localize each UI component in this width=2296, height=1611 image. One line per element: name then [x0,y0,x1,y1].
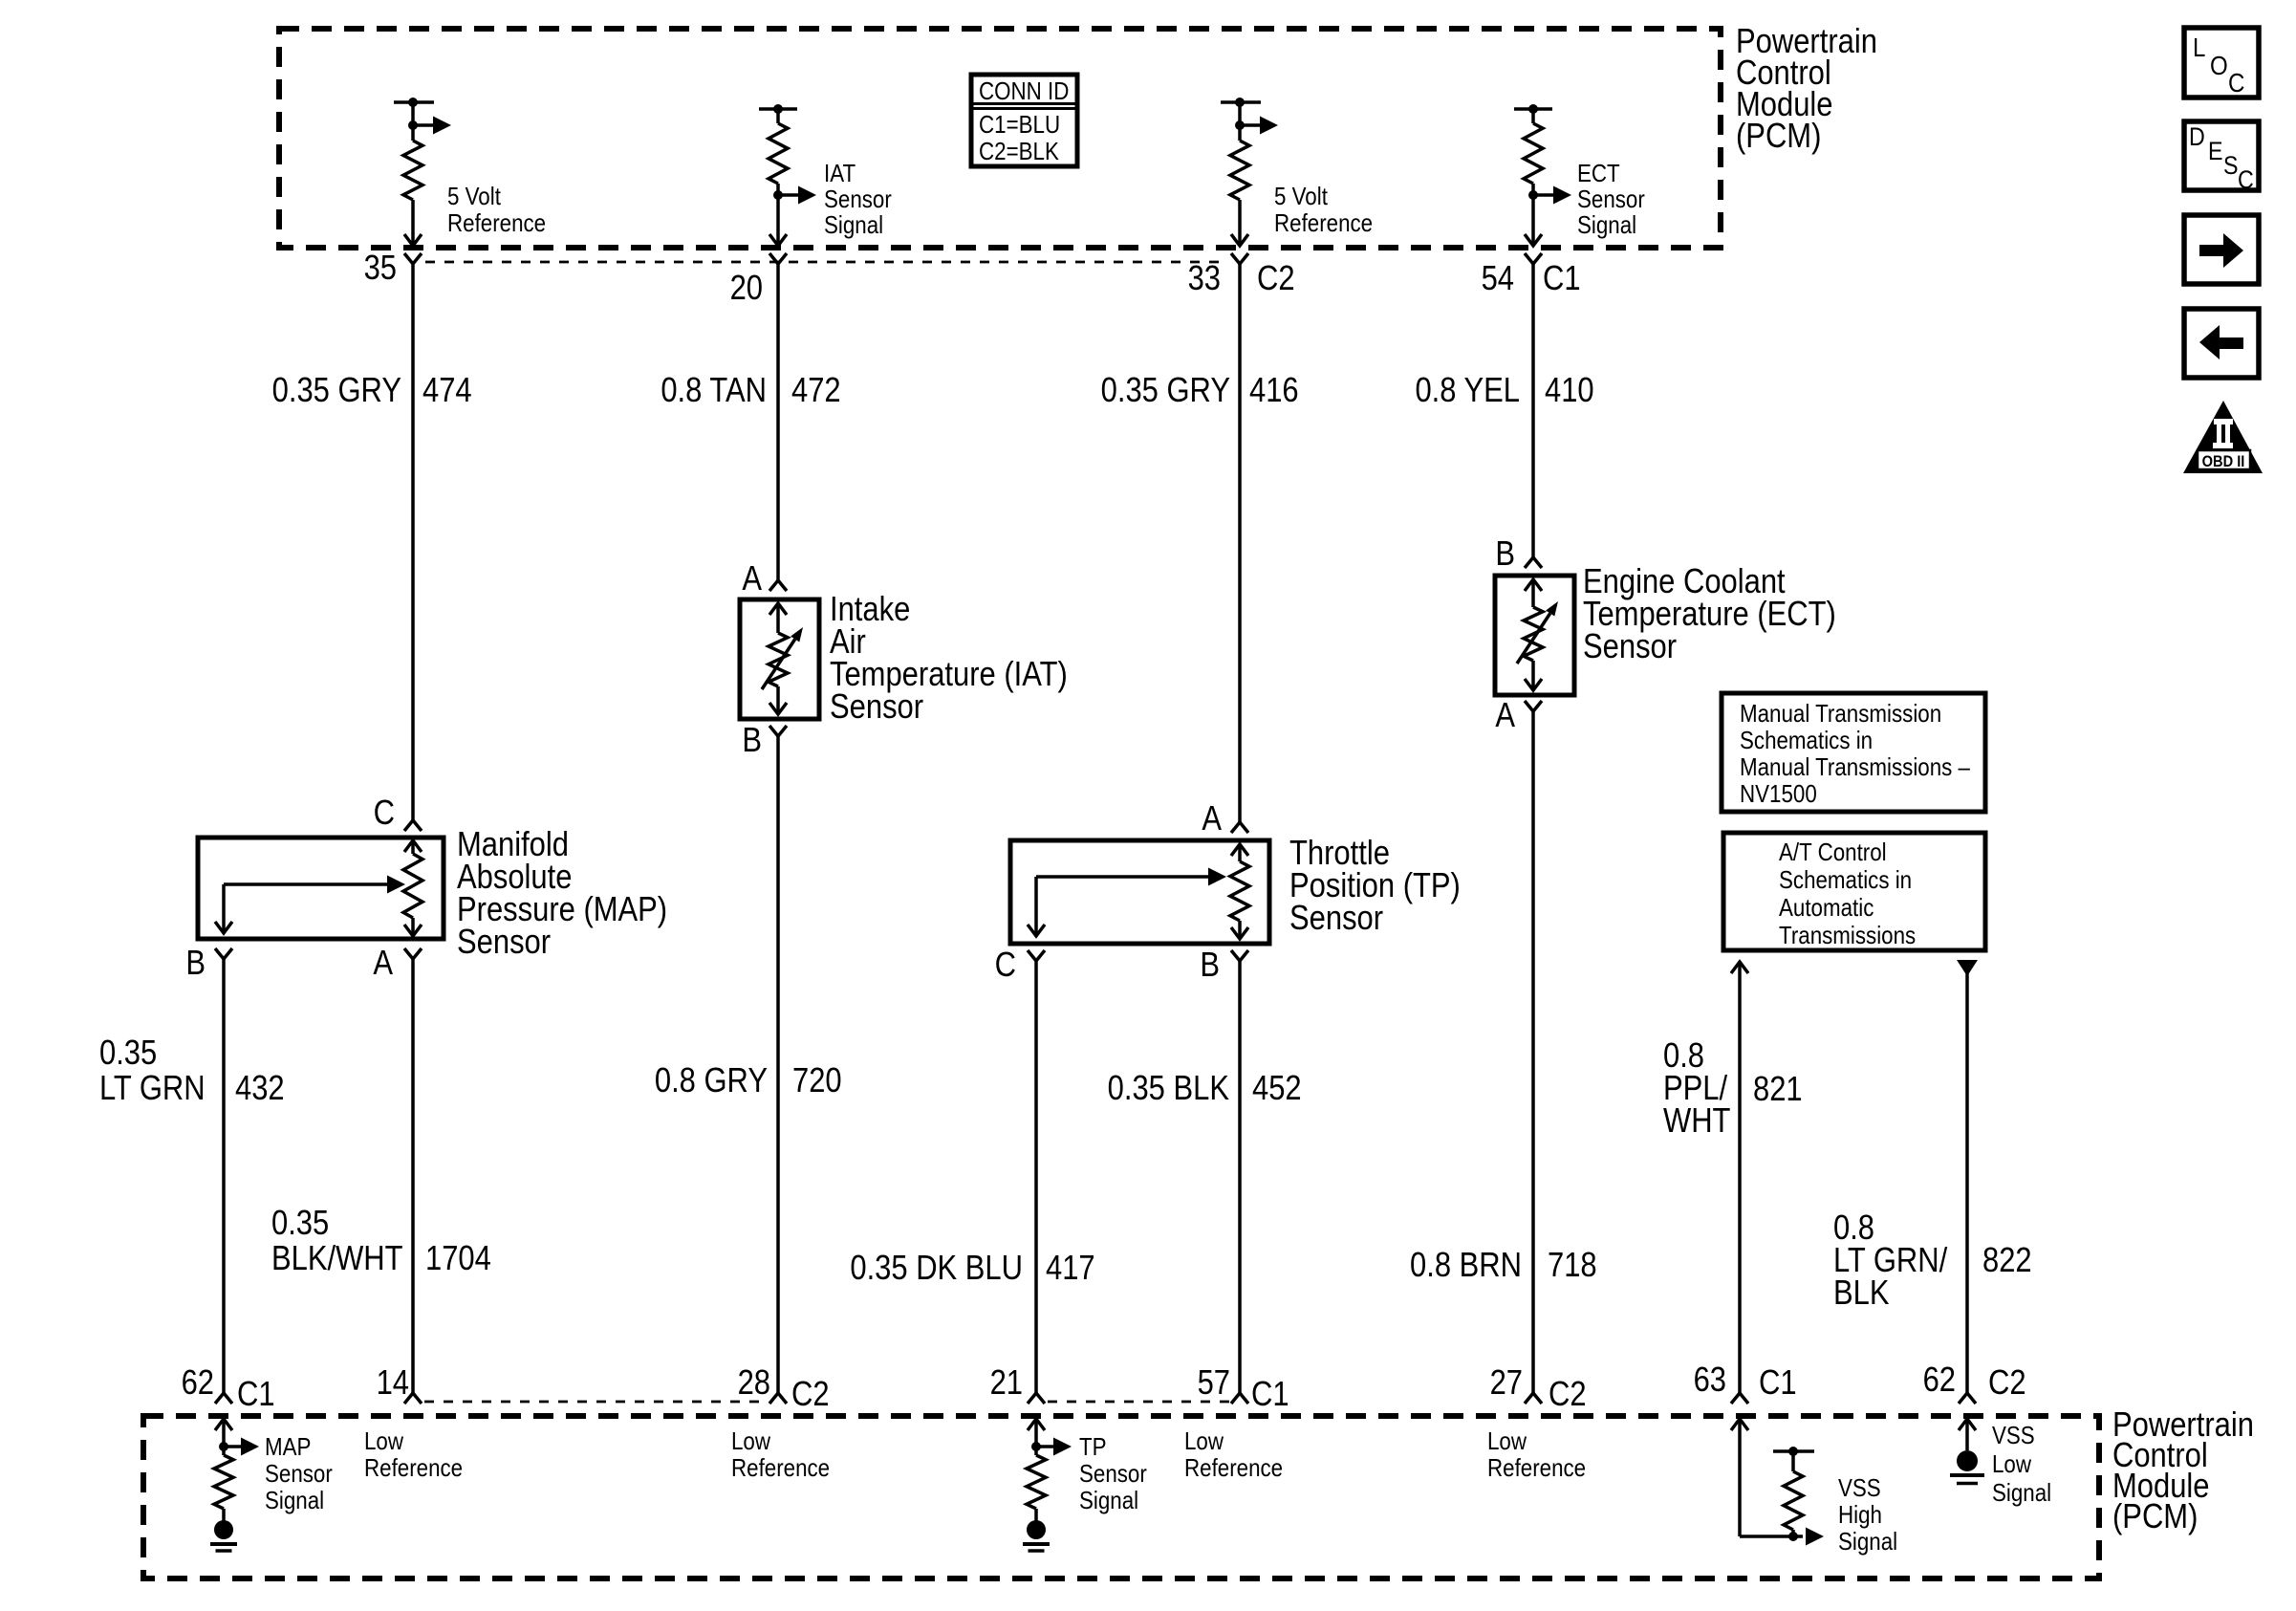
svg-text:Sensor: Sensor [1583,628,1677,666]
svg-text:Sensor: Sensor [1577,185,1645,213]
wire 416 (pin 33 to TP A) [1238,264,1242,822]
svg-text:IAT: IAT [824,160,856,187]
pin 63 C1 (VSS high) [1694,1361,1797,1404]
resistor VSS High Signal (pin 63) [1731,1419,1824,1546]
wire 821 (pin 63 to A/T box, arrow up) [1731,962,1748,1393]
svg-text:720: 720 [792,1062,842,1100]
svg-text:0.8 GRY: 0.8 GRY [655,1062,768,1100]
svg-text:Sensor: Sensor [824,185,892,213]
svg-text:B: B [1200,947,1220,985]
svg-text:C1: C1 [1251,1376,1289,1414]
svg-text:Schematics in: Schematics in [1779,866,1912,894]
ECT sensor box [1495,576,1574,695]
svg-text:416: 416 [1249,372,1299,410]
label VSS Low Signal [1992,1422,2051,1507]
label 5 Volt Reference (pin 35) [447,183,546,237]
svg-text:33: 33 [1188,260,1221,298]
svg-text:0.8 YEL: 0.8 YEL [1415,372,1520,410]
ground (TP signal) [1027,1520,1046,1539]
svg-text:Sensor: Sensor [265,1460,333,1488]
wire 822 (A/T box to pin 62, arrow down) [1957,960,1978,1393]
svg-text:Signal: Signal [1577,211,1636,239]
svg-text:C2: C2 [791,1376,830,1414]
svg-text:474: 474 [422,372,472,410]
svg-text:A/T Control: A/T Control [1779,838,1887,866]
node C (MAP) [374,795,422,833]
label 0.8 YEL 410 [1415,372,1593,410]
wire 720 (IAT B to pin 28) [776,736,780,1393]
TP wiper arrow [1028,868,1226,937]
MAP sensor box [198,838,444,939]
CONN ID legend box [971,75,1077,166]
svg-text:Signal: Signal [1992,1479,2051,1507]
MAP wiper arrow [215,876,405,934]
svg-text:A: A [742,560,762,599]
svg-text:BLK/WHT: BLK/WHT [271,1240,403,1278]
svg-text:Sensor: Sensor [457,924,551,962]
svg-text:Low: Low [364,1427,403,1455]
node A (MAP) [373,945,422,983]
svg-text:MAP: MAP [265,1433,311,1461]
Manual Transmission reference box [1722,693,1985,812]
svg-text:E: E [2208,137,2222,165]
svg-text:0.35: 0.35 [99,1034,157,1073]
svg-text:C2: C2 [1549,1376,1587,1414]
svg-text:Schematics in: Schematics in [1740,727,1873,754]
svg-text:C1: C1 [1543,260,1581,298]
svg-text:14: 14 [377,1364,409,1403]
svg-text:Signal: Signal [1838,1528,1897,1556]
label Low Reference (pin 14) [364,1427,463,1482]
label Engine Coolant Temperature (ECT) Sensor [1583,563,1836,666]
svg-text:VSS: VSS [1838,1474,1881,1502]
svg-text:Sensor: Sensor [1079,1460,1147,1488]
svg-text:410: 410 [1545,372,1594,410]
svg-text:B: B [742,722,762,760]
connector C2 face dashed line (top) [425,261,1228,264]
svg-text:L: L [2193,32,2205,62]
label 0.35 BLK/WHT 1704 [271,1205,491,1278]
TP potentiometer resistor [1230,844,1249,939]
svg-text:A: A [1495,697,1515,735]
svg-text:62: 62 [1923,1361,1956,1400]
svg-text:VSS: VSS [1992,1422,2035,1449]
svg-text:Transmissions: Transmissions [1779,922,1916,949]
svg-text:432: 432 [235,1070,285,1108]
pin 62 C1 (MAP signal) [182,1364,275,1414]
wire 410 (pin 54 to ECT B) [1531,264,1535,557]
wire 417 (TP C to pin 21) [1034,961,1038,1393]
node A (IAT) [742,560,787,599]
wire 472 (pin 20 to IAT A) [776,264,780,580]
ECT thermistor [1517,579,1558,690]
MAP potentiometer resistor [403,840,422,936]
svg-text:C: C [995,947,1016,985]
svg-text:BLK: BLK [1833,1274,1890,1313]
svg-text:28: 28 [738,1364,770,1403]
svg-text:A: A [373,945,393,983]
IAT thermistor [762,603,803,714]
svg-text:5 Volt: 5 Volt [1274,183,1328,210]
svg-text:35: 35 [364,250,397,288]
svg-text:452: 452 [1252,1070,1302,1108]
node B (IAT) [742,722,787,760]
resistor TP Sensor Signal (pin 21) [1027,1419,1072,1521]
left arrow icon box [2184,309,2259,378]
svg-text:C1=BLU: C1=BLU [979,111,1060,139]
svg-text:NV1500: NV1500 [1740,780,1817,808]
label Low Reference (pin 57) [1184,1427,1283,1482]
node B (ECT) [1495,535,1542,574]
label 0.35 DK BLU 417 [850,1250,1094,1288]
label Manifold Absolute Pressure (MAP) Sensor [457,826,667,962]
svg-text:21: 21 [990,1364,1023,1403]
label 0.8 PPL/WHT 821 [1663,1037,1803,1141]
right arrow icon box [2184,215,2259,284]
svg-text:0.35 GRY: 0.35 GRY [1101,372,1230,410]
pin 57 C1 [1198,1364,1289,1414]
svg-text:CONN ID: CONN ID [979,77,1069,105]
svg-text:20: 20 [730,270,763,308]
resistor VSS Low Signal (pin 62 C2) [1959,1419,1976,1450]
svg-text:0.8 TAN: 0.8 TAN [661,372,767,410]
svg-text:WHT: WHT [1663,1102,1730,1141]
label 0.8 BRN 718 [1410,1247,1597,1285]
svg-text:Automatic: Automatic [1779,894,1874,922]
svg-text:D: D [2189,122,2205,151]
pin 62 C2 (VSS low) [1923,1361,2026,1404]
wire 452 (TP B to pin 57) [1238,961,1242,1393]
wire 432 (MAP B to pin 62) [222,959,226,1393]
svg-text:27: 27 [1490,1364,1523,1403]
svg-text:5 Volt: 5 Volt [447,183,501,210]
svg-text:Reference: Reference [1274,209,1373,237]
label 5 Volt Reference (pin 33) [1274,183,1373,237]
pin 35 [364,250,422,288]
svg-text:Low: Low [1487,1427,1527,1455]
svg-text:O: O [2210,50,2228,80]
PCM top dashed box [279,29,1721,248]
svg-text:C2: C2 [1257,260,1295,298]
resistor MAP Sensor Signal (pin 62) [214,1419,259,1521]
svg-text:1704: 1704 [425,1240,491,1278]
svg-text:S: S [2223,151,2238,180]
svg-text:718: 718 [1548,1247,1597,1285]
pin 28 C2 [738,1364,830,1414]
TP sensor box [1010,840,1269,944]
label TP Sensor Signal [1079,1433,1147,1514]
A/T Control reference box [1723,833,1985,950]
svg-text:TP: TP [1079,1433,1107,1461]
svg-text:Signal: Signal [824,211,883,239]
svg-text:0.35 GRY: 0.35 GRY [272,372,401,410]
svg-text:B: B [1495,535,1515,574]
pin 20 [730,253,787,308]
svg-text:472: 472 [791,372,841,410]
svg-text:63: 63 [1694,1361,1726,1400]
node C (TP) [995,947,1045,985]
label 0.35 GRY 416 [1101,372,1299,410]
svg-text:62: 62 [182,1364,214,1403]
label 0.35 GRY 474 [272,372,472,410]
svg-text:C2: C2 [1988,1364,2026,1403]
node B (TP) [1200,947,1248,985]
svg-text:B: B [185,945,206,983]
node A (ECT) [1495,697,1542,735]
DESC icon box [2184,121,2259,194]
pin 21 [990,1364,1045,1404]
svg-text:Manual Transmission: Manual Transmission [1740,700,1941,728]
label ECT Sensor Signal [1577,160,1645,239]
svg-text:57: 57 [1198,1364,1230,1403]
label 0.35 LT GRN 432 [99,1034,285,1108]
label Powertrain Control Module (PCM) bottom [2112,1406,2254,1536]
ground (MAP signal) [214,1520,233,1539]
svg-text:LT GRN: LT GRN [99,1070,206,1108]
pin 27 C2 [1490,1364,1587,1414]
svg-text:Sensor: Sensor [1289,900,1383,938]
svg-text:Reference: Reference [1184,1454,1283,1482]
label IAT Sensor Signal [824,160,892,239]
svg-text:(PCM): (PCM) [1736,118,1821,156]
node B (MAP) [185,945,232,983]
connector face dashed line (pins 21-57) [1048,1401,1229,1404]
svg-text:0.35 DK BLU: 0.35 DK BLU [850,1250,1023,1288]
LOC icon box [2184,28,2259,98]
svg-text:Reference: Reference [447,209,546,237]
svg-text:Reference: Reference [731,1454,830,1482]
svg-text:417: 417 [1046,1250,1095,1288]
svg-text:ECT: ECT [1577,160,1620,187]
pin 33 C2 [1188,253,1295,298]
svg-text:Signal: Signal [265,1487,324,1514]
label Throttle Position (TP) Sensor [1289,835,1461,938]
wire 474 (pin 35 to MAP C) [411,264,415,820]
svg-text:0.35: 0.35 [271,1205,329,1243]
svg-text:C1: C1 [1759,1364,1797,1403]
svg-text:Signal: Signal [1079,1487,1138,1514]
svg-text:C: C [2238,165,2254,194]
OBD II triangle icon [2183,401,2263,473]
svg-text:0.8 BRN: 0.8 BRN [1410,1247,1522,1285]
label MAP Sensor Signal [265,1433,333,1514]
svg-text:Reference: Reference [1487,1454,1586,1482]
label Low Reference (pin 28) [731,1427,830,1482]
label Intake Air Temperature (IAT) Sensor [830,591,1068,727]
resistor IAT Sensor Signal (pin 20) [759,104,816,246]
resistor 5 Volt Reference (pin 33) [1221,98,1278,246]
svg-text:Reference: Reference [364,1454,463,1482]
svg-text:Low: Low [1184,1427,1224,1455]
svg-text:821: 821 [1753,1071,1803,1109]
label Low Reference (pin 27) [1487,1427,1586,1482]
svg-text:High: High [1838,1501,1882,1529]
label 0.35 BLK 452 [1108,1070,1302,1108]
svg-text:0.35 BLK: 0.35 BLK [1108,1070,1230,1108]
wire 718 (ECT A to pin 27) [1531,711,1535,1393]
ground (VSS low) [1957,1450,1978,1471]
label Powertrain Control Module (PCM) top [1736,23,1877,156]
svg-text:C1: C1 [237,1376,275,1414]
pin 14 [377,1364,422,1404]
svg-text:54: 54 [1482,260,1514,298]
svg-text:Sensor: Sensor [830,688,923,727]
label 0.8 LT GRN/BLK 822 [1833,1209,2032,1313]
svg-text:Low: Low [1992,1450,2031,1478]
svg-text:A: A [1202,800,1222,838]
label 0.8 TAN 472 [661,372,840,410]
connector face dashed line (pins 14-28) [424,1401,760,1404]
svg-text:C: C [2228,67,2244,98]
svg-text:C: C [374,795,395,833]
svg-text:OBD II: OBD II [2202,453,2245,470]
svg-text:(PCM): (PCM) [2112,1498,2198,1536]
svg-text:C2=BLK: C2=BLK [979,138,1059,165]
label VSS High Signal [1838,1474,1897,1556]
IAT sensor box [740,599,819,719]
svg-text:Low: Low [731,1427,770,1455]
resistor ECT Sensor Signal (pin 54) [1514,104,1571,246]
wire 1704 (MAP A to pin 14) [411,959,415,1393]
svg-text:822: 822 [1982,1242,2032,1280]
node A (TP) [1202,800,1248,838]
label 0.8 GRY 720 [655,1062,842,1100]
pin 54 C1 [1482,253,1581,298]
PCM bottom dashed box [143,1416,2099,1578]
svg-text:Manual Transmissions –: Manual Transmissions – [1740,753,1970,781]
resistor 5 Volt Reference (pin 35) [394,98,451,246]
